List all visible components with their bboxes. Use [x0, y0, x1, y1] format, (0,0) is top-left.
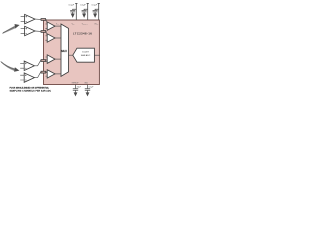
wire GND pin down [87, 85, 89, 89]
svg-text:0.1µF: 0.1µF [69, 5, 75, 7]
IC block U1 (shaded ADC block) [44, 20, 100, 85]
svg-text:FOUR SINGLE-ENDED OR DIFFERENT: FOUR SINGLE-ENDED OR DIFFERENTIAL [10, 87, 50, 90]
capacitor C1 [70, 9, 76, 13]
input resistor pin A1 [41, 19, 46, 21]
input stubs buffer T4 [45, 72, 47, 76]
wire into buffer T4 [46, 71, 48, 74]
internal buffer T2 [47, 34, 55, 42]
wire MUX to ADC [69, 54, 74, 56]
svg-text:0.1µF: 0.1µF [92, 5, 98, 7]
svg-text:MUX: MUX [61, 49, 67, 53]
op-amp A1 [25, 14, 35, 23]
svg-text:SAMPLING CHANNELS PER SAR ADC: SAMPLING CHANNELS PER SAR ADC [10, 90, 52, 93]
svg-text:VCC: VCC [56, 23, 59, 25]
op-amp B1 [24, 61, 34, 70]
wire T3 to MUX [55, 58, 61, 60]
squiggle arrow bottom: arrowhead [14, 67, 19, 72]
squiggle arrow bottom: core stroke [1, 62, 14, 69]
svg-text:16-BIT: 16-BIT [82, 52, 89, 54]
wire REFBUF pin down [75, 85, 77, 89]
wire T1 to MUX [55, 25, 61, 27]
wire supply rail 2 [87, 3, 89, 20]
wire B1 output with jog up [34, 61, 41, 66]
plus/minus marks op-amp B2 [25, 74, 27, 80]
svg-text:SAR ADC: SAR ADC [81, 54, 91, 57]
svg-text:0.1µF: 0.1µF [80, 5, 86, 7]
ground arrow 2 [82, 14, 86, 18]
wire supply rail 1 [75, 3, 77, 20]
input resistor pin B2 [41, 71, 46, 73]
wire into buffer T3 [46, 59, 48, 60]
wire A1 output to pin [35, 18, 41, 20]
input stubs buffer T2 [45, 36, 47, 40]
MUX trapezoid [61, 24, 69, 76]
input wires op-amp A2 [21, 29, 25, 34]
internal buffer T1 [47, 22, 55, 30]
svg-text:0.1µF: 0.1µF [89, 87, 95, 89]
internal buffer T4 [47, 70, 55, 78]
wire A2 output to pin [35, 30, 41, 32]
svg-text:VDDLBYP: VDDLBYP [82, 23, 88, 25]
squiggle arrow top: arrowhead [15, 24, 20, 29]
input resistor pin A2 [41, 31, 46, 33]
plus/minus marks op-amp A1 [25, 16, 27, 22]
capacitor C2 [82, 9, 88, 13]
squiggle arrow top: body [2, 26, 15, 34]
capacitor C3 [93, 9, 99, 13]
input wires op-amp A1 [21, 17, 25, 22]
op-amp B2 [24, 73, 34, 82]
wire B2 output with jog up [34, 72, 41, 77]
plus/minus marks op-amp A2 [25, 28, 27, 34]
svg-text:LTC2348-16: LTC2348-16 [73, 31, 92, 35]
wire + ground arrow 4 [75, 90, 77, 92]
capacitor C5 (0.1uF) [85, 89, 90, 91]
squiggle arrow top: core stroke [3, 27, 15, 33]
ground arrow 1 [71, 14, 75, 18]
wire supply rail 3 [98, 3, 100, 20]
wire T4 to MUX [55, 73, 61, 75]
input wires op-amp B1 [20, 63, 24, 68]
wire T2 to MUX [55, 37, 61, 39]
ground arrow 3 [93, 14, 97, 18]
wire ADC output [94, 54, 100, 56]
svg-text:47µF: 47µF [77, 87, 82, 89]
input wires op-amp B2 [20, 75, 24, 80]
input stubs buffer T3 [45, 57, 47, 61]
wire into buffer T1 [46, 20, 48, 25]
ADC block (16-BIT SAR ADC) [73, 48, 95, 62]
input stubs buffer T1 [45, 24, 47, 28]
plus/minus marks op-amp B1 [25, 63, 27, 69]
wire into buffer T2 [46, 32, 48, 37]
capacitor C4 (47uF) [73, 89, 78, 91]
wire + ground arrow 5 [87, 90, 89, 92]
svg-text:VDD: VDD [72, 23, 75, 25]
svg-text:OVDD: OVDD [94, 23, 98, 25]
squiggle arrow bottom: body [1, 61, 15, 70]
internal buffer T3 [47, 55, 55, 64]
op-amp A2 [25, 26, 35, 35]
input resistor pin B1 [41, 60, 46, 62]
svg-text:REFBUF: REFBUF [72, 83, 79, 85]
